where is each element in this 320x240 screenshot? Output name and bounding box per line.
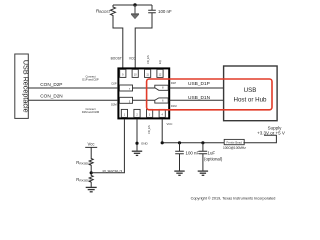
svg-text:USB_D1P: USB_D1P [188, 81, 210, 87]
svg-text:D2M: D2M [111, 102, 116, 106]
svg-text:CON_D2P: CON_D2P [40, 82, 62, 87]
svg-text:+3.3V or +5 V: +3.3V or +5 V [257, 131, 285, 136]
svg-text:100Ω@100MHz: 100Ω@100MHz [223, 146, 246, 150]
svg-text:1uF: 1uF [208, 151, 216, 156]
svg-text:CD_EN: CD_EN [147, 125, 151, 134]
svg-text:100 nF: 100 nF [186, 151, 200, 156]
svg-text:D1M: D1M [171, 104, 176, 108]
svg-text:Host or Hub: Host or Hub [233, 96, 267, 103]
svg-text:100 nF: 100 nF [158, 9, 172, 14]
svg-text:RX_SEN/TRA_HI: RX_SEN/TRA_HI [103, 170, 123, 173]
svg-text:CD_EN: CD_EN [146, 55, 150, 64]
svg-text:D1M and D2M: D1M and D2M [82, 110, 100, 114]
svg-text:EQ: EQ [158, 60, 162, 64]
svg-text:Ferrite Bead: Ferrite Bead [227, 141, 243, 145]
svg-text:Copyright © 2019, Texas Instru: Copyright © 2019, Texas Instruments Inco… [191, 196, 276, 200]
svg-text:(optional): (optional) [204, 156, 223, 161]
svg-text:RRXSEN1: RRXSEN1 [76, 177, 91, 183]
svg-text:USB Receptacle: USB Receptacle [22, 60, 31, 113]
svg-text:D1P: D1P [171, 81, 176, 85]
svg-text:CON_D2N: CON_D2N [40, 94, 62, 99]
svg-text:GND: GND [141, 141, 149, 145]
svg-text:RRXSEN2: RRXSEN2 [76, 160, 91, 166]
svg-text:USB_D1N: USB_D1N [188, 95, 211, 101]
svg-text:USB: USB [244, 87, 257, 94]
svg-text:VCC: VCC [167, 122, 173, 126]
svg-text:Vcc: Vcc [88, 142, 95, 147]
svg-text:RBOOST: RBOOST [96, 8, 111, 14]
svg-text:BOOST: BOOST [111, 57, 122, 61]
svg-text:D2P: D2P [112, 82, 117, 86]
svg-text:D1P and D2P: D1P and D2P [82, 78, 99, 82]
svg-text:VCC: VCC [129, 57, 136, 61]
